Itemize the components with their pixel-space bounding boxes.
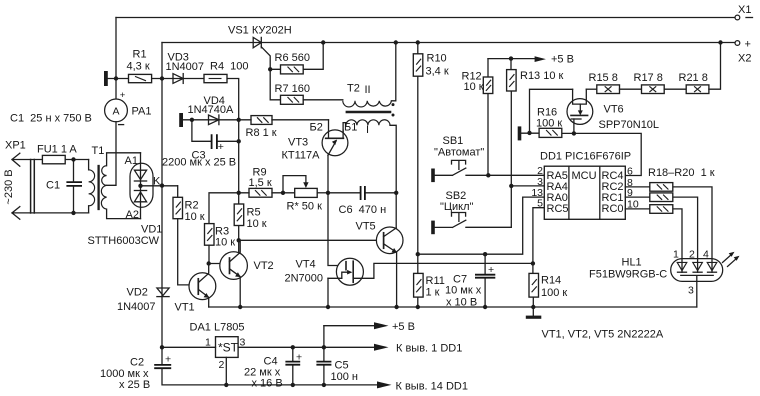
svg-text:1N4007: 1N4007 — [166, 61, 205, 73]
svg-text:C1 25 н x 750 В: C1 25 н x 750 В — [10, 113, 92, 125]
svg-text:R8 1 к: R8 1 к — [246, 127, 277, 139]
svg-text:SPP70N10L: SPP70N10L — [599, 119, 660, 131]
junction dot — [160, 76, 164, 80]
regulator DA1 — [160, 322, 374, 388]
wire VT3 emitter to R* node and VT4 gate — [328, 155, 346, 265]
junction — [237, 238, 241, 242]
svg-text:x 25 В: x 25 В — [119, 379, 150, 391]
svg-text:4,3 к: 4,3 к — [127, 61, 150, 73]
svg-text:4: 4 — [703, 249, 709, 261]
junction — [237, 139, 241, 143]
svg-text:F51BW9RGB-C: F51BW9RGB-C — [589, 269, 667, 281]
HL1 light arrows — [723, 254, 738, 267]
svg-text:R14: R14 — [541, 275, 561, 287]
wire R3 to VT1 collector / VT2 base — [209, 245, 230, 263]
diode VD4 — [183, 95, 239, 125]
junction — [416, 252, 420, 256]
svg-text:R13 10 к: R13 10 к — [520, 70, 564, 82]
svg-text:HL1: HL1 — [622, 257, 642, 269]
svg-text:R4 100: R4 100 — [210, 61, 249, 73]
svg-text:"Цикл": "Цикл" — [440, 201, 474, 213]
VT3 base B1 lead — [342, 130, 344, 138]
svg-text:T1: T1 — [92, 145, 105, 157]
capacitor C7 — [445, 254, 495, 309]
svg-text:R5: R5 — [247, 207, 261, 219]
transformer T2 — [343, 40, 398, 227]
svg-text:VD1: VD1 — [141, 224, 162, 236]
svg-text:+5 В: +5 В — [551, 54, 574, 66]
node R1 left terminal bar — [104, 71, 108, 86]
resistor R9 — [239, 167, 295, 198]
svg-text:1N4007: 1N4007 — [117, 301, 156, 313]
svg-text:VT2: VT2 — [254, 260, 274, 272]
diode VD2 — [117, 287, 169, 314]
capacitor C2 — [100, 354, 377, 392]
svg-text:100 к: 100 к — [541, 287, 567, 299]
capacitor C4 — [244, 345, 302, 389]
svg-text:+5 В: +5 В — [392, 321, 415, 333]
junction — [326, 305, 330, 309]
wire K node to R2 — [141, 186, 178, 198]
node R16 left terminal bar — [518, 126, 522, 140]
wire RC5 line to VT4 drain — [533, 208, 544, 264]
resistor R3 branch wire — [209, 193, 239, 224]
svg-text:C1: C1 — [46, 180, 60, 192]
T2 winding I — [346, 120, 390, 126]
svg-text:MCU: MCU — [572, 170, 597, 182]
capacitor C1 — [46, 157, 82, 215]
junction — [483, 252, 487, 256]
svg-text:XP1: XP1 — [5, 140, 26, 152]
resistor R14 — [529, 263, 567, 309]
junction — [237, 118, 241, 122]
transistor VT4 mosfet — [285, 258, 533, 285]
svg-text:A2: A2 — [126, 209, 139, 221]
HL1 led 2 — [693, 262, 703, 270]
resistor R12 — [462, 59, 493, 176]
svg-text:x 16 В: x 16 В — [252, 378, 283, 390]
ground symbol — [526, 307, 542, 319]
svg-text:RC0: RC0 — [602, 203, 624, 215]
svg-text:+: + — [218, 141, 224, 153]
junction — [326, 191, 330, 195]
arrow +5V bottom — [374, 321, 415, 333]
svg-text:+: + — [488, 264, 494, 276]
svg-text:А: А — [112, 105, 119, 117]
transistor VT6 mosfet — [567, 89, 659, 131]
svg-text:10 к: 10 к — [185, 211, 205, 223]
svg-text:X1: X1 — [738, 4, 751, 16]
transistor VT5 — [356, 221, 404, 308]
svg-text:1: 1 — [673, 249, 679, 261]
fuse FU1 — [37, 144, 89, 164]
ground rail — [209, 306, 697, 308]
junction — [509, 56, 513, 60]
resistor R6 — [268, 40, 325, 74]
transistor VT3 unijunction — [282, 120, 358, 162]
svg-text:1 к: 1 к — [426, 287, 440, 299]
resistor R3 — [205, 224, 236, 249]
svg-text:RC5: RC5 — [547, 203, 569, 215]
VD1 diode A2 — [140, 181, 142, 219]
resistor R8 — [239, 116, 329, 139]
svg-text:10 к: 10 к — [247, 218, 267, 230]
capacitor C6 — [328, 186, 396, 216]
svg-text:VS1 КУ202Н: VS1 КУ202Н — [228, 25, 292, 37]
resistor R19 — [625, 193, 697, 259]
svg-text:C5: C5 — [335, 360, 349, 372]
junction — [190, 118, 194, 122]
wire R2 to VT1 base — [178, 219, 190, 285]
junction — [238, 305, 242, 309]
svg-text:VT4: VT4 — [296, 259, 316, 271]
svg-text:R15 8: R15 8 — [589, 72, 618, 84]
T2 winding II — [343, 101, 392, 107]
resistor R20 — [625, 205, 682, 259]
svg-text:100 к: 100 к — [536, 118, 562, 130]
svg-text:VT5: VT5 — [356, 221, 376, 233]
HL1 common cathode — [681, 275, 713, 307]
HL1 led 1 — [677, 262, 687, 270]
wire mid vertical x=238.7 — [238, 120, 240, 252]
svg-text:100 н: 100 н — [331, 371, 358, 383]
junction — [394, 40, 398, 44]
resistor R13 — [466, 59, 564, 228]
svg-text:+: + — [165, 354, 171, 366]
wire RA4 line — [511, 185, 544, 187]
svg-text:2: 2 — [219, 359, 225, 371]
wire VT6 gate — [573, 119, 575, 133]
arrow to DD1 pin14 — [377, 381, 468, 393]
resistor R4 — [204, 61, 249, 83]
microcontroller DD1 — [531, 151, 639, 220]
svg-text:DD1 PIC16F676IP: DD1 PIC16F676IP — [540, 151, 631, 163]
resistor R7 — [275, 83, 343, 104]
junction — [531, 261, 535, 265]
svg-text:10 к: 10 к — [215, 237, 235, 249]
svg-text:VT1, VT2, VT5 2N2222A: VT1, VT2, VT5 2N2222A — [542, 329, 664, 341]
svg-text:+: + — [120, 90, 126, 101]
arrow +5V top — [535, 54, 574, 66]
svg-text:X2: X2 — [738, 53, 751, 65]
node VD4 left terminal bar — [179, 113, 183, 127]
svg-text:1N4740A: 1N4740A — [188, 104, 235, 116]
VT3 base B2 lead — [328, 120, 330, 139]
svg-text:R18–R20 1 к: R18–R20 1 к — [648, 167, 715, 179]
svg-text:PA1: PA1 — [132, 106, 152, 118]
resistor R18 — [625, 183, 712, 259]
HL1 pin leads — [682, 259, 712, 273]
svg-text:R* 50 к: R* 50 к — [287, 201, 323, 213]
junction — [394, 305, 398, 309]
wire rectified DC vertical x=162 — [161, 43, 163, 365]
svg-text:3,4 к: 3,4 к — [426, 66, 449, 78]
svg-text:I: I — [366, 124, 369, 136]
resistor R10 — [413, 40, 449, 254]
svg-text:R1: R1 — [133, 49, 147, 61]
wire VT6 drain to R15 — [586, 88, 597, 90]
arrow to DD1 pin1 — [374, 343, 462, 355]
junction dot — [114, 76, 118, 80]
svg-text:SB1: SB1 — [443, 135, 464, 147]
svg-text:II: II — [365, 84, 371, 96]
svg-text:R21 8: R21 8 — [679, 72, 708, 84]
svg-text:A1: A1 — [125, 155, 138, 167]
resistor R17 — [634, 72, 687, 94]
pushbutton SB2 — [431, 190, 511, 234]
resistor R11 — [414, 254, 445, 309]
thyristor VS1 — [228, 25, 292, 100]
resistor R16 — [521, 107, 641, 176]
wire X1 top line — [116, 17, 735, 19]
svg-text:+: + — [745, 39, 751, 51]
svg-text:VT1: VT1 — [175, 302, 195, 314]
polarity dot — [392, 103, 395, 106]
XP1 pin bottom — [12, 207, 89, 220]
svg-text:2: 2 — [689, 249, 695, 261]
svg-text:T2: T2 — [347, 83, 360, 95]
resistor R5 — [234, 204, 267, 230]
T1 secondary winding — [107, 153, 141, 219]
XP1 pin top — [12, 153, 42, 166]
wire +5V top feed — [488, 58, 535, 60]
wire VT2 collector node to VT5 base — [239, 239, 377, 241]
wire PA1 to T1 center tap — [107, 122, 116, 186]
svg-text:*ST: *ST — [218, 341, 239, 355]
svg-text:FU1 1 A: FU1 1 A — [37, 144, 77, 156]
VD1 diode A1 — [140, 153, 142, 181]
svg-text:К выв. 14 DD1: К выв. 14 DD1 — [396, 381, 468, 393]
svg-text:R7 160: R7 160 — [275, 83, 310, 95]
T1 core — [97, 166, 99, 209]
svg-text:~230 В: ~230 В — [3, 169, 15, 204]
svg-text:R17 8: R17 8 — [634, 72, 663, 84]
junction — [237, 191, 241, 195]
junction — [509, 184, 513, 188]
pushbutton SB1 — [431, 135, 544, 182]
wire VS1 anode line y=42.5 — [162, 42, 735, 44]
svg-text:STTH6003CW: STTH6003CW — [88, 235, 160, 247]
svg-text:1,5 к: 1,5 к — [249, 177, 272, 189]
resistor R15 — [589, 72, 642, 94]
resistor R1 — [127, 49, 152, 83]
svg-text:6: 6 — [627, 165, 633, 177]
svg-text:VT6: VT6 — [604, 104, 624, 116]
svg-text:x 10 В: x 10 В — [446, 297, 477, 309]
wire R1 line — [108, 79, 239, 120]
svg-text:C2: C2 — [130, 357, 144, 369]
svg-text:C6 470 н: C6 470 н — [339, 204, 387, 216]
terminal X1 — [735, 4, 753, 20]
T2 core — [347, 111, 390, 114]
svg-text:3: 3 — [688, 285, 694, 297]
transformer T1 — [89, 145, 141, 219]
svg-text:10 к: 10 к — [464, 81, 484, 93]
svg-text:КТ117А: КТ117А — [282, 150, 321, 162]
wire RA0 line y=254.2 — [418, 197, 545, 254]
svg-text:R11: R11 — [426, 275, 445, 287]
wire +5V output — [324, 325, 374, 327]
terminal X2 — [735, 39, 751, 65]
svg-text:2200 мк x 25 В: 2200 мк x 25 В — [162, 157, 236, 169]
capacitor C3 — [162, 120, 239, 169]
resistor R2 — [173, 197, 205, 223]
capacitor C5 — [316, 326, 358, 387]
junction — [160, 183, 164, 187]
svg-text:R2: R2 — [185, 200, 199, 212]
svg-text:К выв. 1 DD1: К выв. 1 DD1 — [396, 343, 462, 355]
T1 primary winding — [88, 160, 90, 213]
svg-text:R10: R10 — [427, 53, 447, 65]
transistor VT1 — [175, 264, 216, 314]
svg-text:5: 5 — [537, 197, 543, 209]
junction — [138, 184, 142, 188]
svg-text:Б2: Б2 — [310, 122, 323, 134]
svg-text:Б1: Б1 — [344, 122, 357, 134]
XP1 connector bars — [31, 160, 35, 214]
wire VT4 source to ground rail — [327, 278, 329, 307]
rectifier assembly VD1 — [88, 153, 163, 247]
junction — [394, 191, 398, 195]
svg-text:VD2: VD2 — [127, 287, 148, 299]
VT3 emitter — [328, 141, 336, 155]
wire left vertical to PA1 — [115, 18, 117, 100]
resistor R21 — [679, 40, 723, 93]
ammeter PA1 — [105, 90, 152, 124]
polarity dot — [392, 114, 395, 117]
svg-text:VT3: VT3 — [288, 137, 308, 149]
svg-text:+: + — [296, 352, 302, 364]
transistor VT2 — [220, 240, 274, 307]
diode VD3 — [166, 52, 205, 84]
HL1 led 3 — [707, 262, 717, 270]
svg-text:"Автомат": "Автомат" — [434, 147, 484, 159]
svg-text:DA1 L7805: DA1 L7805 — [190, 322, 245, 334]
wire VT6 source loop — [530, 89, 573, 133]
svg-text:10 мк x: 10 мк x — [445, 285, 482, 297]
potentiometer R* — [281, 176, 328, 213]
connector XP1 — [3, 140, 89, 220]
svg-text:R6 560: R6 560 — [275, 52, 310, 64]
svg-text:2N7000: 2N7000 — [285, 273, 324, 285]
LED HL1 — [589, 249, 740, 308]
junction — [207, 261, 211, 265]
